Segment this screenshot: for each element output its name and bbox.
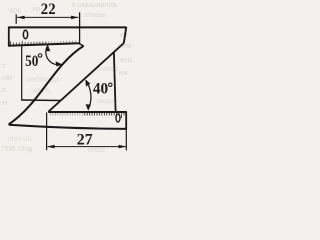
dim 27 extension right (125, 129, 127, 150)
svg-text:хНОМщдл: хНОМщдл (26, 77, 60, 84)
right edge lower part (114, 52, 116, 112)
dim 22 right arrowhead (71, 16, 79, 20)
svg-text:в оказыванлж: в оказыванлж (72, 2, 117, 9)
dim 22 left arrowhead (17, 16, 25, 20)
right edge top part (124, 27, 127, 43)
50 deg arc (46, 45, 62, 64)
label 0 bottom ruler (116, 114, 120, 122)
top edge (8, 26, 126, 28)
svg-text:аеш: аеш (120, 57, 132, 64)
top ruler bottom edge (8, 43, 79, 45)
bleed-through ghost text (0, 2, 134, 154)
degree symbol of 50 (38, 54, 42, 58)
diagonal S9 (48, 43, 124, 112)
dim 27 extension left (46, 113, 48, 151)
short cut edge S5 (79, 43, 84, 46)
svg-text:ГОВ ОНд: ГОВ ОНд (2, 146, 32, 153)
bottom edge from Z tip / bottom ruler bottom edge (9, 125, 127, 129)
svg-text:-Н: -Н (0, 100, 7, 107)
ruler ticks bottom (51, 113, 125, 118)
svg-text:-ЮК: -ЮК (8, 8, 22, 15)
label 0 top ruler (23, 30, 27, 38)
extension line right of dim 22 (79, 12, 81, 43)
dim 27 right arrowhead (119, 145, 127, 149)
40 arc top arrowhead (85, 80, 90, 87)
svg-text:выдо: выдо (97, 98, 114, 105)
svg-text:27: 27 (77, 131, 93, 148)
dimension 27 line (47, 146, 125, 148)
horizontal connector S7 (21, 99, 61, 102)
bottom ruler top edge (48, 111, 127, 113)
svg-text::т: :т (0, 63, 6, 70)
40 arc bottom arrowhead (86, 104, 91, 111)
svg-text:ко: ко (33, 6, 40, 13)
extension tick left of dim 22 (15, 14, 17, 23)
svg-text:-нМ: -нМ (0, 75, 12, 82)
long diagonal S6 (9, 46, 84, 125)
zero mark drop line S8 (21, 44, 23, 100)
svg-text:40: 40 (93, 81, 108, 98)
svg-text:50: 50 (25, 53, 38, 70)
40 deg arc (86, 80, 91, 109)
50 arc top arrowhead (46, 45, 51, 51)
svg-text:атказы: атказы (84, 12, 106, 19)
50 arc bottom arrowhead (56, 61, 63, 66)
dimension 22 line (17, 16, 78, 18)
top ruler left edge (8, 27, 10, 46)
svg-text:пКН ЬК: пКН ЬК (8, 136, 32, 143)
dim 27 left arrowhead (47, 145, 55, 149)
bottom ruler right end (125, 112, 127, 129)
svg-text:нж: нж (119, 70, 128, 77)
degree symbol of 40 (109, 83, 112, 86)
svg-text:.п: .п (0, 87, 6, 94)
svg-text:22: 22 (41, 1, 56, 18)
ruler ticks top (10, 41, 75, 46)
